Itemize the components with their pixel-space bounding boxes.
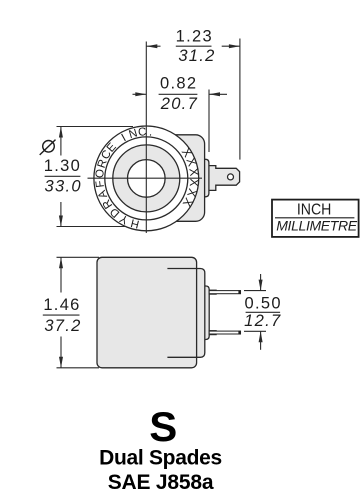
spade blade outline (front) xyxy=(209,166,240,191)
svg-text:C: C xyxy=(138,126,147,139)
svg-text:37.2: 37.2 xyxy=(44,317,81,335)
right extension line xyxy=(239,39,241,160)
connector block fill xyxy=(167,269,204,358)
svg-text:F: F xyxy=(94,180,107,188)
boss outline (side) xyxy=(205,286,209,340)
arrowheads 1.23 xyxy=(146,44,157,48)
svg-text:12.7: 12.7 xyxy=(244,312,281,330)
svg-text:0.82: 0.82 xyxy=(160,75,197,93)
left arrow tail xyxy=(146,45,160,47)
svg-text:1.46: 1.46 xyxy=(43,296,80,314)
svg-text:INCH: INCH xyxy=(297,202,332,219)
upper terminal base (side) xyxy=(209,290,216,294)
terminal boss fill (front) xyxy=(205,159,209,197)
svg-text:20.7: 20.7 xyxy=(160,95,198,113)
side body fill xyxy=(97,257,197,368)
bottom tick xyxy=(57,367,100,369)
middle circle (gray ring) xyxy=(113,145,180,212)
arrowheads 1.30 xyxy=(59,127,63,138)
right arrow tail xyxy=(222,45,240,47)
svg-text:0.50: 0.50 xyxy=(245,295,282,313)
arrowheads 1.46 xyxy=(59,257,63,268)
fraction bar 0.50 xyxy=(246,311,281,313)
svg-text:X: X xyxy=(187,178,202,187)
boss fill (side) xyxy=(205,286,209,340)
outer flange circle xyxy=(94,126,199,231)
top tick xyxy=(57,126,134,128)
bottom tick xyxy=(244,330,266,332)
fraction bar 1.30 xyxy=(45,175,81,177)
svg-text:33.0: 33.0 xyxy=(45,178,82,196)
side body outline xyxy=(97,257,197,368)
dim line top segment xyxy=(60,257,62,292)
horizontal centerline xyxy=(88,177,203,179)
fraction bar xyxy=(159,93,198,95)
svg-text:Dual Spades: Dual Spades xyxy=(99,447,222,470)
diameter symbol xyxy=(40,140,56,155)
lower spade terminal (side) xyxy=(209,331,240,334)
label band inner circle xyxy=(105,137,188,220)
arrowheads 0.50 xyxy=(259,280,263,291)
svg-text:1.30: 1.30 xyxy=(44,157,81,175)
svg-text:S: S xyxy=(149,403,177,450)
lower terminal base (side) xyxy=(209,331,216,335)
svg-text:SAE J858a: SAE J858a xyxy=(108,471,214,494)
dim line top segment xyxy=(60,127,62,156)
top arrow line xyxy=(260,274,262,291)
bottom tick xyxy=(57,226,127,228)
bottom arrow line xyxy=(260,331,262,350)
inner bore circle xyxy=(128,160,166,198)
top tick xyxy=(244,290,266,292)
svg-text:1.23: 1.23 xyxy=(176,28,213,46)
arrowheads 0.82 xyxy=(135,92,146,96)
right extension line xyxy=(208,90,210,153)
spade blade fill (front) xyxy=(209,166,240,191)
right outside arrow tail xyxy=(209,93,227,95)
svg-text:MILLIMETRE: MILLIMETRE xyxy=(276,217,358,233)
vertical centerline / extension xyxy=(145,42,147,234)
upper spade terminal (side) xyxy=(209,291,240,294)
curved text HYDRAFORCE INC. xyxy=(94,126,153,230)
svg-text:31.2: 31.2 xyxy=(178,47,215,65)
dim line bottom segment xyxy=(60,202,62,227)
curved text XXXXXX xyxy=(179,145,202,209)
coil body square (front view) xyxy=(116,135,240,222)
centerlines (crosshair) xyxy=(88,42,203,234)
fraction bar xyxy=(176,45,212,47)
coil face circles xyxy=(94,126,199,231)
connector block outline xyxy=(167,269,204,358)
left outside arrow tail xyxy=(133,93,147,95)
blade hole xyxy=(228,174,234,180)
terminal boss outline (front) xyxy=(205,159,209,197)
fraction bar 1.46 xyxy=(43,314,80,316)
dim line bottom segment xyxy=(60,337,62,368)
top tick xyxy=(57,256,100,258)
